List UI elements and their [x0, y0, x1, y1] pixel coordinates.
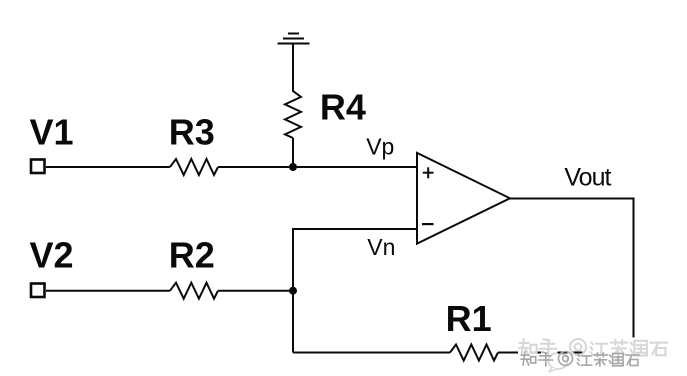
- wire ground to R4: [292, 44, 294, 93]
- resistor R4: [285, 91, 301, 138]
- wire V1 to R3: [46, 166, 170, 168]
- wire op-amp output: [510, 198, 635, 200]
- wire R4 to node Vp: [292, 138, 294, 167]
- resistor R1: [450, 345, 498, 361]
- watermark text row 1: [519, 339, 668, 356]
- resistor R2: [170, 283, 218, 299]
- svg-text:R1: R1: [446, 298, 492, 339]
- wire right riser Vout to feedback: [633, 199, 635, 353]
- wire dashes visible through watermark: [532, 352, 583, 354]
- svg-text:V1: V1: [30, 112, 74, 153]
- wire feedback bottom left segment: [293, 352, 450, 354]
- svg-text:Vout: Vout: [564, 164, 611, 192]
- ground: [278, 34, 310, 44]
- op-amp U1: [417, 153, 510, 244]
- wire feedback bottom right segment: [498, 352, 635, 354]
- svg-text:R4: R4: [320, 87, 366, 128]
- resistor R3: [170, 159, 218, 175]
- wire V2 to R2: [46, 290, 170, 292]
- wire R2 to node: [218, 290, 293, 292]
- op-amp - pin mark: [422, 223, 434, 225]
- watermark bubble logo: [549, 353, 568, 372]
- wire vertical riser node to Vn and down to feedback: [292, 229, 294, 353]
- svg-text:R3: R3: [169, 112, 215, 153]
- junction node Vp: [289, 163, 297, 171]
- junction node Vn column: [289, 287, 297, 295]
- watermark white halo: [518, 337, 669, 369]
- op-amp + pin mark: [423, 167, 434, 178]
- terminal V2: [31, 284, 45, 298]
- wire Vn to op-amp - input: [292, 228, 417, 230]
- wire R3 to op-amp + input: [218, 166, 417, 168]
- svg-text:V2: V2: [30, 235, 74, 276]
- watermark text row 2: [521, 352, 640, 367]
- terminal V1: [31, 160, 45, 174]
- svg-text:Vn: Vn: [367, 234, 395, 260]
- svg-text:Vp: Vp: [366, 133, 394, 159]
- svg-text:R2: R2: [169, 235, 215, 276]
